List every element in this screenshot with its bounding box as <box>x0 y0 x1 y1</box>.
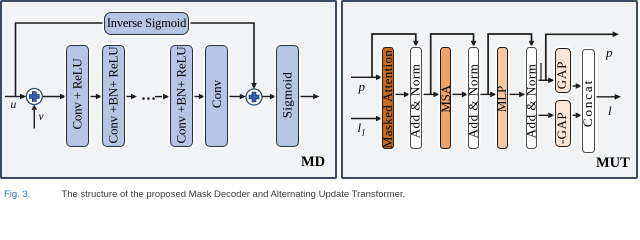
arrowhead b4 to adder2 <box>240 94 246 100</box>
wire p riser to output <box>546 34 613 80</box>
wire Concat to l output <box>595 96 616 98</box>
arrowhead -GAP-Concat <box>576 113 582 119</box>
wire AN1 to MSA <box>422 93 435 95</box>
arrowhead sigmoid out <box>313 94 319 100</box>
wire skip3 <box>488 34 531 94</box>
wire adder2 to sigmoid <box>262 96 271 98</box>
arrowhead to b1 <box>60 94 66 100</box>
block Conv <box>205 45 228 147</box>
label p output <box>606 45 613 61</box>
block Concat <box>582 49 595 153</box>
label l1 input <box>358 120 366 138</box>
wire feedback right (inverse sigmoid to adder 2) <box>189 23 254 84</box>
arrowhead b2-dots <box>131 94 137 100</box>
label v <box>39 111 44 123</box>
wire -GAP to Concat <box>571 114 577 116</box>
block GAP <box>555 48 571 94</box>
label l output <box>608 103 612 119</box>
arrowhead to b2 <box>96 94 102 100</box>
wire AN2 to MLP <box>479 93 491 95</box>
arrowhead p output <box>613 32 619 38</box>
arrowhead adder2 to sigmoid <box>270 94 276 100</box>
wire skip1 <box>372 34 416 77</box>
wire GAP to Concat <box>571 85 577 87</box>
wire short stub <box>540 63 542 80</box>
block Add & Norm 1 <box>410 47 422 149</box>
block Conv +BN+ ReLU (1) <box>102 45 125 147</box>
wire b1 to b2 <box>89 96 97 98</box>
adder circle 2 <box>246 89 262 105</box>
block Conv + ReLU <box>66 45 89 147</box>
wire MLP to AN3 <box>508 93 519 95</box>
label MD <box>301 154 325 171</box>
arrowhead dots-b3 <box>163 94 169 100</box>
arrowhead skip1 into AN1 <box>413 41 419 47</box>
block -GAP <box>555 100 571 147</box>
dots ... <box>142 97 145 100</box>
arrowhead AN3-GAP <box>548 78 554 84</box>
arrowhead AN3 to -GAP <box>548 113 554 119</box>
wire adder1 to Conv+ReLU <box>43 96 61 98</box>
wire dots to b3 <box>155 96 162 98</box>
wire MSA to AN2 <box>451 93 462 95</box>
arrowhead p into MA <box>376 75 382 81</box>
arrowhead MLP-AN3 <box>519 92 525 98</box>
arrowhead v to adder1 <box>32 105 38 110</box>
wire v input <box>33 110 35 129</box>
label MUT <box>596 155 630 172</box>
label u <box>11 99 17 111</box>
block Sigmoid <box>276 45 299 147</box>
wire skip2 <box>431 34 474 94</box>
arrowhead skip3 into AN3 <box>529 41 535 47</box>
block Add & Norm 3 <box>526 47 538 149</box>
block MLP <box>497 47 509 149</box>
wire b2 to dots <box>125 96 132 98</box>
block Add & Norm 2 <box>468 47 479 149</box>
arrowhead MA-AN1 <box>404 92 410 98</box>
wire l1 input <box>351 118 377 120</box>
wire b4 to adder2 <box>228 96 240 98</box>
block Conv +BN+ ReLU (2) <box>170 45 194 147</box>
wire u input <box>5 96 21 98</box>
wire feedback left (inverse sigmoid to input) <box>16 23 105 96</box>
block Masked Attention <box>382 47 393 149</box>
wire sigmoid output <box>299 96 314 98</box>
wire AN3 to GAP <box>537 79 549 81</box>
arrowhead AN1-MSA <box>433 92 439 98</box>
arrowhead MSA-AN2 <box>462 92 468 98</box>
arrowhead l output <box>615 94 621 100</box>
left panel MD <box>0 0 337 179</box>
block Inverse Sigmoid <box>104 12 189 35</box>
wire AN3 to -GAP <box>537 114 548 116</box>
right panel MUT <box>341 0 639 179</box>
label p input <box>359 79 366 95</box>
arrowhead feedback down to adder2 <box>251 83 257 89</box>
arrowhead GAP-Concat <box>576 83 582 89</box>
block MSA <box>440 47 452 149</box>
wire b3 to b4 <box>193 96 200 98</box>
adder circle 1 <box>26 89 42 105</box>
arrowhead u to adder1 <box>20 94 26 100</box>
arrowhead to b4 <box>199 94 205 100</box>
caption <box>4 189 405 200</box>
wire p input <box>351 76 377 78</box>
arrowhead l1 into MA <box>376 116 382 122</box>
arrowhead skip2 into AN2 <box>471 41 477 47</box>
wire MA to AN1 <box>394 93 405 95</box>
arrowhead AN2-MLP <box>490 92 496 98</box>
